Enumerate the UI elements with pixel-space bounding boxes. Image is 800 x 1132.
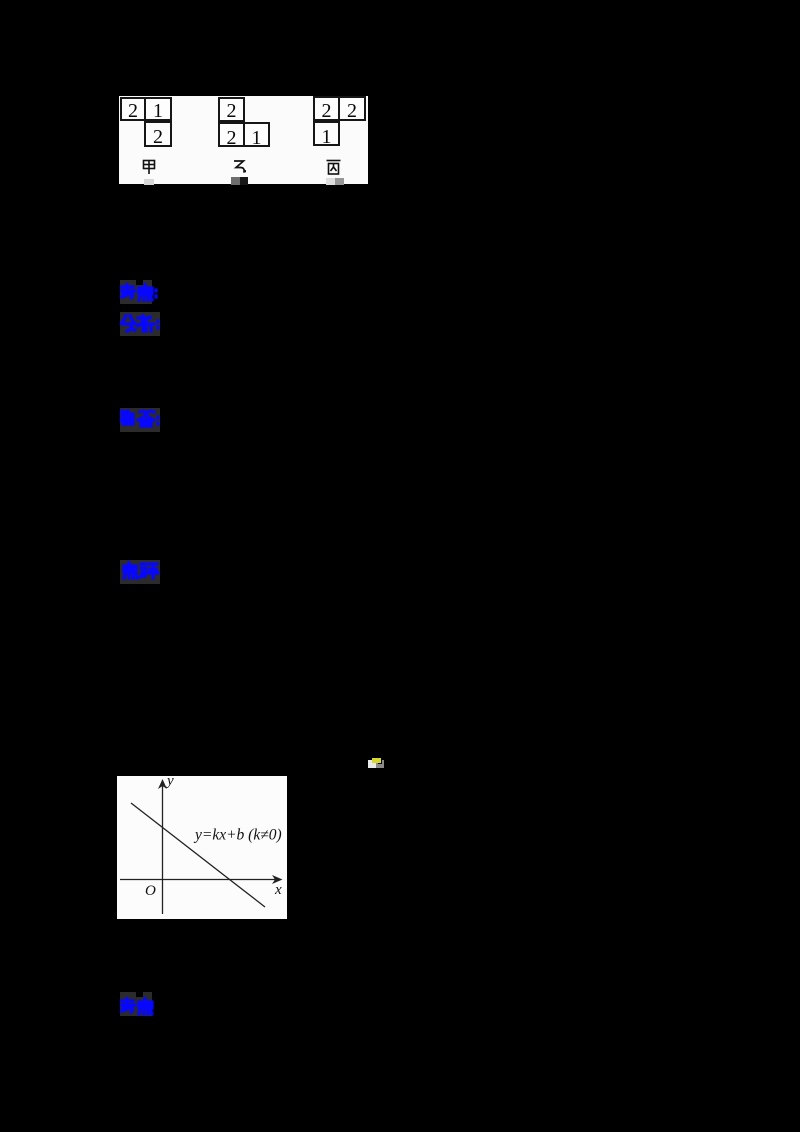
- svg-text:y=kx+b (k≠0): y=kx+b (k≠0): [193, 827, 282, 844]
- svg-text:y: y: [165, 776, 174, 789]
- svg-text:x: x: [274, 882, 282, 898]
- svg-text:O: O: [145, 883, 156, 899]
